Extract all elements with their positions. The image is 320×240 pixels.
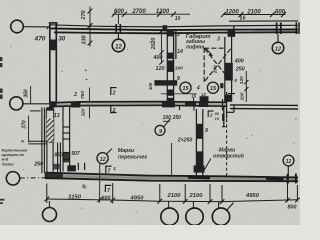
bottom dim extension lines [47,183,298,204]
right shaft wall dim line [245,71,247,102]
node circle 15 right [207,82,218,93]
middle wall black fills [71,101,208,107]
wire top wall line2 [49,28,298,30]
scan speckles [3,8,297,216]
wire stub to B3 [192,202,194,209]
hatched pier 13 [46,110,53,143]
dashed axis line below step [226,119,228,176]
lift shaft right wall lines [225,26,234,102]
dim ticks top left [112,12,176,17]
bottom wall left junction black [45,173,63,180]
node circle 9 [155,125,165,135]
top dimension line left [113,13,191,15]
dark blob left of pier2 base [54,164,60,170]
wire above wall at axis 12 left [117,14,119,24]
wall end ticks top right edge [296,22,299,34]
ticks on vertical dim [88,9,93,46]
node B1 circle bottom under wall [43,208,57,222]
leader from circle 9 [164,119,171,127]
dark block in ladder [63,153,71,163]
cabin X diagonal 2 [205,49,231,81]
wire middle wall right top line [230,104,298,107]
left wall base black fill [49,101,56,107]
section mark 7 lower [105,185,111,192]
bottom wall inner shading band [46,175,299,179]
left small vertical dim lines [29,86,31,143]
node circle 12 bottom-left [97,153,108,164]
dark blob below step [222,114,225,121]
lift cabin dashed box [204,48,231,82]
shaft left wall black fills [167,30,174,103]
node A1 circle top-left [11,20,24,33]
tick under 100 250 labels [163,120,170,122]
central lower wall black fills [194,124,205,173]
vertical dim segments near section 2 [89,88,91,119]
central lower wall lines [196,109,202,176]
wire slash at B4 [226,203,234,211]
cabin X diagonal 1 [205,49,231,82]
node circle 15 left [180,82,191,93]
wall black segments on bottom wall [188,175,210,179]
door jamb stubs below middle wall [180,106,195,110]
dark blob at pier base [67,165,76,171]
tick pair right of pier base [78,163,84,170]
node B4 circle bottom [212,208,229,225]
lift shaft left wall lines [167,30,176,102]
section mark 7 upper [106,166,112,174]
shaft right wall black fills [224,63,232,102]
shaft inner sill line [161,93,197,95]
wire axis A2 [23,103,49,105]
wire bottom dimension line [47,199,298,202]
node A3 circle left bottom [6,172,19,185]
wire to circle 12 bottom-right [287,166,289,176]
wire bottom wall bottom line [46,178,299,181]
wire middle wall right bottom line [230,108,298,110]
leader from circle 12 to lintel label [106,149,112,154]
node axis 12 top-left circle [112,39,125,52]
bottom wall left end cap [45,173,47,179]
wire middle wall left bottom line [49,105,226,106]
lift door jamb black [200,96,209,102]
door-side wall ladder lines [63,107,70,172]
vertical dim line 270/330 [89,7,91,47]
short line below right wall [228,93,235,95]
node B3 circle bottom [186,208,203,225]
node B2 circle bottom [161,208,178,225]
extension line below 2x250 [171,143,173,177]
lift shaft right wall top black square [228,30,236,36]
pier lines below [47,142,61,174]
small black blob right of circle 15 [220,83,223,88]
wire top wall line1 [49,25,298,27]
wall joint ticks on top wall at axis 12 right [277,23,281,35]
wire axis A3 dash-dot [20,177,46,179]
right shaft wall dim ticks [244,80,248,91]
section mark 2 upper [111,87,117,95]
vertical dim line 2020 [161,30,163,64]
wire to circle 12 top-left [117,34,119,39]
top dimension line right [223,14,286,16]
wire top wall line3 [54,32,298,33]
extension below circle 12 [99,164,101,203]
ticks near 470/30 [47,25,58,30]
wire axis A1 [23,26,49,28]
wire bottom wall top line [46,173,299,178]
wall stub below step [223,106,225,127]
dim ticks top right [221,12,286,17]
cross wall stub black band [154,80,177,85]
jamb ticks [194,98,204,102]
wire stub to B4 [218,202,220,208]
balcony threshold lines [28,111,46,144]
lift shaft top joint black square [163,25,168,31]
wire stub to B2 [168,201,170,208]
left wall black fill [49,40,56,51]
node axis 12 top-right circle [272,42,284,54]
wall joint ticks on top wall at axis 12 left [116,24,120,34]
wire stub to B1 [48,201,50,207]
leader to wall holes [204,159,210,170]
node left wall (vertical, axis A) [49,23,58,103]
node A2 circle left middle [10,97,23,110]
wire top canopy line [229,20,298,22]
black cap above pier [46,107,53,110]
wire middle wall left top line [49,102,226,103]
bottom dim oblique ticks [45,197,300,204]
middle wall right step [223,92,235,119]
misc small dot [85,70,87,72]
left edge blobs [0,57,4,204]
section mark 2 lower [111,106,117,114]
leader arrow from lift label [206,48,213,56]
tick 600 mark [240,15,242,20]
section mark 2 flag near shaft [208,110,213,117]
middle wall inner shading band [49,104,226,105]
wire to circle 12 top-right [277,34,279,42]
bottom wall right end bars [287,174,289,184]
node axis 12 bottom-right circle [283,155,294,166]
left lower wall outer face lines [42,108,45,174]
